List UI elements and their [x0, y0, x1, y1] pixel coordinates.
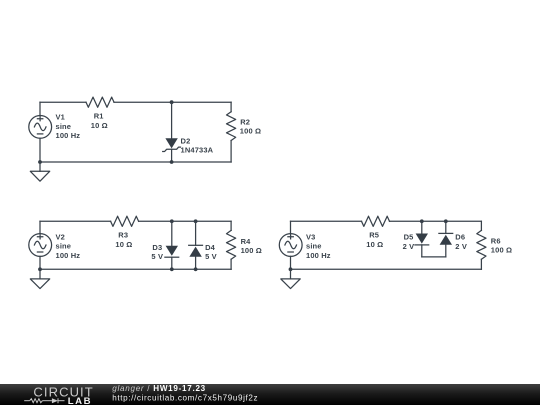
zener diode D2: [163, 102, 181, 162]
label D6: [455, 233, 467, 251]
node D3 top junction: [170, 219, 174, 223]
svg-text:100 Ω: 100 Ω: [240, 127, 261, 136]
svg-text:V3: V3: [306, 232, 315, 241]
svg-text:sine: sine: [56, 242, 72, 251]
voltage source V3: [279, 234, 302, 257]
label V3: [306, 232, 331, 260]
svg-text:2 V: 2 V: [455, 242, 467, 251]
wire top rail circuit 1 left: [40, 101, 86, 103]
svg-text:http://circuitlab.com/c7x5h79u: http://circuitlab.com/c7x5h79u9jf2z: [112, 393, 258, 402]
svg-text:R4: R4: [241, 237, 252, 246]
node D5 top junction: [420, 219, 424, 223]
svg-text:V1: V1: [56, 113, 65, 122]
node V3 bottom junction: [289, 267, 293, 271]
svg-text:1N4733A: 1N4733A: [181, 146, 214, 155]
wire top rail circuit 2 left: [40, 220, 111, 222]
svg-text:10 Ω: 10 Ω: [115, 240, 132, 249]
svg-text:D2: D2: [181, 136, 191, 145]
node V1 bottom junction: [38, 160, 42, 164]
resistor R5: [362, 216, 390, 226]
wire top rail circuit 3 right: [390, 220, 482, 222]
label D4: [205, 243, 217, 261]
diode D5: [415, 221, 429, 257]
svg-text:sine: sine: [306, 242, 322, 251]
svg-text:5 V: 5 V: [205, 252, 217, 261]
footer bar: [0, 384, 540, 405]
label R2: [240, 117, 261, 135]
label R1: [91, 111, 108, 129]
ground circuit 3: [281, 269, 300, 288]
node top junction circuit 1: [170, 100, 174, 104]
voltage source V2: [29, 234, 52, 257]
svg-text:R6: R6: [491, 237, 501, 246]
svg-text:100 Hz: 100 Hz: [306, 251, 331, 260]
node D4 bottom junction: [194, 267, 198, 271]
label D3: [151, 243, 163, 261]
label R5: [366, 231, 383, 249]
wire top rail circuit 3 left: [291, 220, 362, 222]
resistor R3: [111, 216, 139, 226]
svg-text:D6: D6: [455, 233, 465, 242]
svg-text:100 Ω: 100 Ω: [491, 246, 512, 255]
wire bottom rail circuit 3: [291, 268, 482, 270]
resistor R2: [227, 102, 236, 162]
node V2 bottom junction: [38, 267, 42, 271]
voltage source V1: [29, 116, 52, 139]
resistor R4: [227, 221, 236, 269]
wire V2 top lead: [39, 221, 41, 233]
diode D3: [165, 221, 179, 269]
label D2: [181, 136, 214, 154]
diode D6: [439, 221, 453, 257]
svg-text:V2: V2: [56, 232, 65, 241]
svg-text:100 Ω: 100 Ω: [241, 246, 262, 255]
svg-text:10 Ω: 10 Ω: [366, 240, 383, 249]
resistor R1: [86, 97, 114, 107]
label R6: [491, 237, 512, 255]
node D2 bottom junction: [170, 160, 174, 164]
wire V1 top lead: [39, 102, 41, 115]
wire V1 bottom lead: [39, 138, 41, 162]
svg-text:sine: sine: [56, 122, 72, 131]
svg-text:R3: R3: [118, 231, 128, 240]
ground circuit 2: [30, 269, 49, 288]
label R4: [241, 237, 262, 255]
svg-text:R1: R1: [94, 111, 104, 120]
footer logo schematic doodle: [24, 398, 64, 403]
label V2: [56, 232, 81, 260]
svg-text:glanger / HW19-17.23: glanger / HW19-17.23: [112, 384, 206, 393]
svg-text:D4: D4: [205, 243, 216, 252]
svg-text:D5: D5: [404, 233, 414, 242]
node D6 top junction: [444, 219, 448, 223]
ground circuit 1: [30, 162, 49, 181]
svg-text:10 Ω: 10 Ω: [91, 121, 108, 130]
wire bottom rail circuit 1: [40, 161, 231, 163]
label R3: [115, 231, 132, 249]
svg-text:100 Hz: 100 Hz: [56, 131, 81, 140]
wire top rail circuit 2 right: [139, 220, 232, 222]
svg-text:2 V: 2 V: [403, 242, 415, 251]
wire V3 top lead: [290, 221, 292, 233]
svg-text:R2: R2: [240, 117, 250, 126]
svg-text:D3: D3: [152, 243, 162, 252]
label D5: [403, 233, 415, 251]
svg-text:LAB: LAB: [68, 396, 92, 405]
wire bottom rail circuit 2: [40, 268, 231, 270]
svg-text:5 V: 5 V: [151, 252, 163, 261]
svg-text:100 Hz: 100 Hz: [56, 251, 81, 260]
wire V2 bottom lead: [39, 256, 41, 269]
node D4 top junction: [194, 219, 198, 223]
svg-text:R5: R5: [369, 231, 379, 240]
wire V3 bottom lead: [290, 256, 292, 269]
diode D4: [189, 221, 203, 269]
resistor R6: [477, 221, 486, 269]
label V1: [56, 113, 81, 141]
wire D5-D6 bottom link: [422, 256, 446, 258]
node D3 bottom junction: [170, 267, 174, 271]
wire top rail circuit 1 right: [114, 101, 231, 103]
